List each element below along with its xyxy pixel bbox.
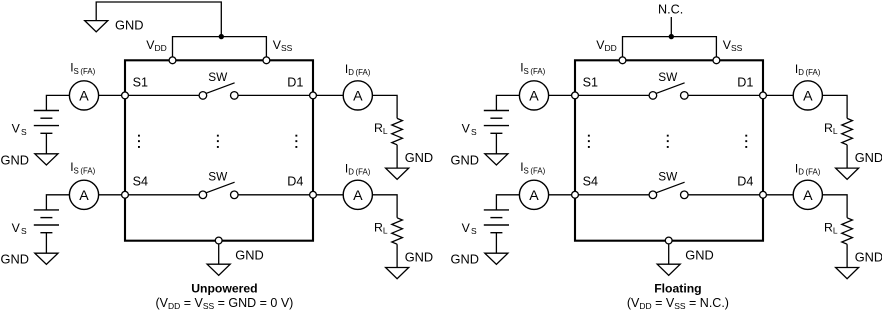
ammeter A (IS) row S1: [69, 81, 98, 110]
pin VSS: [263, 57, 270, 64]
ammeter A (IS) row S4': [519, 180, 548, 209]
ammeter A (ID) row D1': [793, 81, 822, 110]
wire switch to D1 pin: [688, 94, 763, 96]
ground below RL D4': [836, 268, 859, 279]
wire GND pin to bottom ground: [218, 244, 220, 264]
battery VS S1': [484, 111, 509, 134]
svg-text:GND: GND: [1, 252, 29, 267]
svg-text:SW: SW: [208, 170, 228, 184]
battery VS S4': [484, 210, 509, 233]
wire ammeter to resistor RL row D4: [372, 195, 397, 218]
wire S4 pin to switch: [575, 194, 649, 196]
wire switch to D1 pin: [238, 94, 313, 96]
wire GND pin to bottom ground: [668, 244, 670, 264]
svg-text:GND: GND: [685, 247, 713, 262]
pin GNDpin: [215, 237, 222, 244]
bottom ground': [657, 264, 680, 275]
wire resistor to ground D4: [396, 244, 398, 267]
pin VSS': [713, 57, 720, 64]
svg-text:Unpowered: Unpowered: [191, 282, 257, 296]
wire pin D4 to ammeter: [763, 194, 793, 196]
junction dot node: [669, 34, 674, 39]
ammeter A (ID) row D4: [343, 180, 372, 209]
svg-text:S1: S1: [583, 75, 598, 89]
wire bracket VDD-VSS: [623, 37, 717, 57]
svg-text:GND: GND: [855, 249, 882, 264]
wire ammeter to pin S1: [549, 94, 575, 96]
svg-text:A: A: [529, 88, 539, 104]
svg-text:SW: SW: [658, 170, 678, 184]
svg-text:GND: GND: [405, 249, 433, 264]
pin D1': [760, 92, 767, 99]
ground below RL D4: [386, 268, 409, 279]
svg-text:GND: GND: [1, 152, 29, 167]
ground below VS S4: [35, 253, 58, 264]
resistor RL D4: [392, 218, 403, 244]
wire bracket VDD-VSS: [173, 37, 267, 57]
wire pin D1 to ammeter: [313, 94, 343, 96]
wire ammeter to pin S4: [549, 194, 575, 196]
svg-text:A: A: [353, 88, 363, 104]
switch SW row 4: [199, 182, 238, 198]
pin S4': [572, 191, 579, 198]
switch IC box U1: [125, 60, 313, 240]
svg-text:A: A: [79, 188, 89, 204]
ground below VS S4': [485, 253, 508, 264]
resistor RL D1': [842, 118, 853, 144]
pin VDD: [169, 57, 176, 64]
wire switch to D4 pin: [238, 194, 313, 196]
wire resistor to ground D4': [846, 244, 848, 267]
wire ammeter to resistor RL row D1: [372, 95, 397, 118]
ellipsis continuation dots: [588, 135, 747, 148]
pin D4': [760, 191, 767, 198]
wire S1 pin to switch: [125, 94, 199, 96]
svg-text:D1: D1: [737, 75, 753, 89]
junction dot node: [219, 34, 224, 39]
svg-text:S4: S4: [133, 175, 148, 189]
switch SW row 1: [199, 83, 238, 99]
wire resistor to ground D1: [396, 145, 398, 168]
wire S1 pin to switch: [575, 94, 649, 96]
svg-text:GND: GND: [115, 18, 143, 33]
top ground: [85, 21, 108, 32]
ground below VS S1': [485, 154, 508, 165]
wire ammeter to resistor RL row D4': [822, 195, 847, 218]
battery VS S4: [34, 210, 59, 233]
ground below RL D1: [386, 168, 409, 179]
svg-text:D4: D4: [737, 175, 753, 189]
pin D4: [310, 191, 317, 198]
ammeter A (ID) row D1: [343, 81, 372, 110]
svg-text:A: A: [79, 88, 89, 104]
svg-text:SW: SW: [208, 70, 228, 84]
wire junction to top ground: [96, 2, 221, 37]
wire resistor to ground D1': [846, 145, 848, 168]
wire battery to ground S1': [495, 133, 497, 154]
svg-text:SW: SW: [658, 70, 678, 84]
svg-text:S1: S1: [133, 75, 148, 89]
resistor RL D1: [392, 118, 403, 144]
pin VDD': [619, 57, 626, 64]
svg-text:D4: D4: [287, 175, 303, 189]
svg-text:A: A: [803, 88, 813, 104]
svg-text:N.C.: N.C.: [658, 2, 683, 16]
wire pin D1 to ammeter: [763, 94, 793, 96]
switch IC box U2: [575, 60, 763, 240]
ground below RL D1': [836, 168, 859, 179]
ammeter A (ID) row D4': [793, 180, 822, 209]
wire S4 pin to switch: [125, 194, 199, 196]
svg-text:GND: GND: [451, 152, 479, 167]
wire switch to D4 pin: [688, 194, 763, 196]
wire junction to N.C.: [670, 17, 672, 37]
svg-text:GND: GND: [235, 247, 263, 262]
pin GNDpin': [665, 237, 672, 244]
svg-text:GND: GND: [405, 150, 433, 165]
wire battery to ground S4: [45, 233, 47, 254]
pin S4: [122, 191, 129, 198]
svg-text:A: A: [803, 188, 813, 204]
wire ammeter to pin S1: [99, 94, 125, 96]
resistor RL D4': [842, 218, 853, 244]
wire pin D4 to ammeter: [313, 194, 343, 196]
svg-text:GND: GND: [451, 252, 479, 267]
wire battery VS to ammeter row S4: [46, 195, 69, 210]
svg-text:Floating: Floating: [654, 282, 701, 296]
pin D1: [310, 92, 317, 99]
wire battery to ground S1: [45, 133, 47, 154]
ammeter A (IS) row S1': [519, 81, 548, 110]
pin S1': [572, 92, 579, 99]
wire battery VS2 to ammeter row S4: [496, 195, 519, 210]
svg-text:GND: GND: [855, 150, 882, 165]
wire battery VS2 to ammeter row S1: [496, 95, 519, 110]
svg-text:D1: D1: [287, 75, 303, 89]
pin S1: [122, 92, 129, 99]
ammeter A (IS) row S4: [69, 180, 98, 209]
ground below VS S1: [35, 154, 58, 165]
wire battery to ground S4': [495, 233, 497, 254]
battery VS S1: [34, 111, 59, 134]
wire ammeter to pin S4: [99, 194, 125, 196]
bottom ground: [207, 264, 230, 275]
svg-text:A: A: [529, 188, 539, 204]
svg-text:S4: S4: [583, 175, 598, 189]
wire battery VS to ammeter row S1: [46, 95, 69, 110]
wire ammeter to resistor RL row D1': [822, 95, 847, 118]
switch SW row 1': [649, 83, 688, 99]
svg-text:A: A: [353, 188, 363, 204]
switch SW row 4': [649, 182, 688, 198]
ellipsis continuation dots: [138, 135, 297, 148]
